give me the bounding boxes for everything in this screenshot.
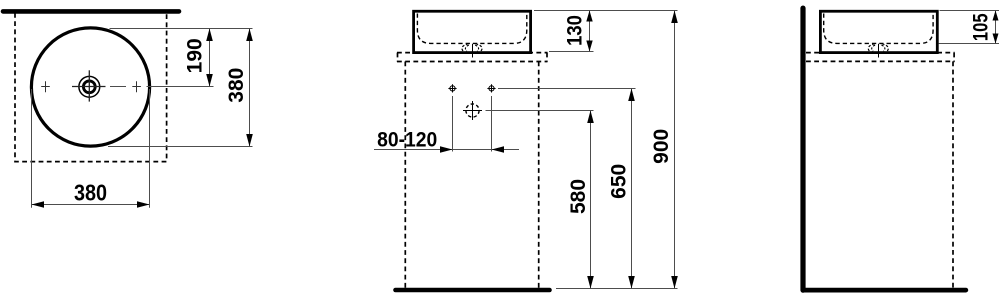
svg-text:105: 105 xyxy=(970,13,993,41)
svg-text:80-120: 80-120 xyxy=(377,129,437,152)
svg-text:190: 190 xyxy=(184,38,207,73)
svg-text:580: 580 xyxy=(567,179,590,214)
svg-text:380: 380 xyxy=(74,180,107,206)
svg-text:900: 900 xyxy=(650,129,673,164)
svg-text:130: 130 xyxy=(563,15,586,46)
svg-text:380: 380 xyxy=(225,68,248,103)
svg-text:650: 650 xyxy=(608,164,631,199)
